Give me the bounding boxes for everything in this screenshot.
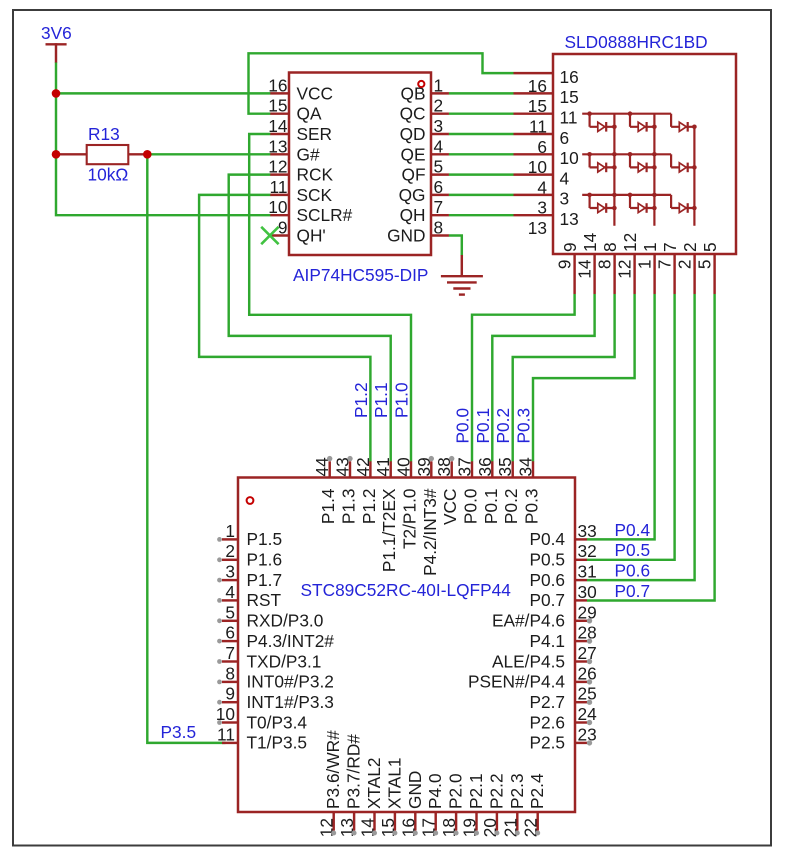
svg-text:1: 1	[434, 75, 444, 95]
svg-text:8: 8	[595, 260, 615, 270]
svg-text:VCC: VCC	[297, 83, 334, 103]
svg-text:5: 5	[695, 260, 715, 270]
svg-text:2: 2	[675, 260, 695, 270]
svg-text:2: 2	[225, 541, 235, 561]
svg-text:P4.1: P4.1	[529, 631, 565, 651]
svg-text:P2.7: P2.7	[529, 692, 565, 712]
svg-text:29: 29	[578, 602, 597, 622]
svg-text:P0.4: P0.4	[529, 529, 565, 549]
svg-text:8: 8	[600, 242, 620, 252]
svg-text:P0.2: P0.2	[493, 408, 513, 444]
svg-text:9: 9	[278, 218, 288, 238]
svg-text:P0.3: P0.3	[522, 489, 542, 525]
svg-text:14: 14	[268, 116, 288, 136]
svg-text:8: 8	[225, 663, 235, 683]
svg-text:P2.2: P2.2	[486, 773, 506, 809]
svg-text:8: 8	[434, 218, 444, 238]
svg-text:QH': QH'	[297, 226, 326, 246]
svg-text:4: 4	[560, 168, 570, 188]
svg-text:P2.6: P2.6	[529, 712, 565, 732]
svg-text:P0.4: P0.4	[615, 520, 651, 540]
svg-text:14: 14	[580, 232, 600, 252]
svg-text:QC: QC	[400, 104, 426, 124]
svg-text:P0.1: P0.1	[473, 408, 493, 444]
svg-text:STC89C52RC-40I-LQFP44: STC89C52RC-40I-LQFP44	[301, 580, 512, 600]
svg-text:P1.1/T2EX: P1.1/T2EX	[379, 488, 399, 572]
svg-text:12: 12	[620, 233, 640, 252]
svg-text:P0.0: P0.0	[461, 489, 481, 525]
svg-text:TXD/P3.1: TXD/P3.1	[247, 651, 322, 671]
svg-text:P1.7: P1.7	[247, 570, 283, 590]
svg-text:5: 5	[700, 242, 720, 252]
svg-text:XTAL2: XTAL2	[364, 757, 384, 809]
svg-text:P1.2: P1.2	[351, 382, 371, 418]
svg-text:3: 3	[434, 116, 444, 136]
svg-text:P4.3/INT2#: P4.3/INT2#	[247, 631, 335, 651]
svg-text:P0.6: P0.6	[615, 561, 651, 581]
svg-text:3V6: 3V6	[41, 23, 72, 43]
svg-text:P0.7: P0.7	[529, 590, 565, 610]
svg-text:13: 13	[528, 218, 547, 238]
svg-text:P4.0: P4.0	[425, 773, 445, 809]
svg-text:7: 7	[660, 242, 680, 252]
svg-text:33: 33	[578, 521, 597, 541]
svg-text:P3.6/WR#: P3.6/WR#	[323, 730, 343, 809]
svg-text:R13: R13	[88, 124, 120, 144]
svg-text:10: 10	[560, 148, 579, 168]
svg-text:31: 31	[578, 562, 597, 582]
svg-text:P2.3: P2.3	[507, 773, 527, 809]
svg-text:P3.7/RD#: P3.7/RD#	[344, 734, 364, 809]
svg-text:1: 1	[225, 521, 235, 541]
svg-text:GND: GND	[405, 771, 425, 809]
svg-text:15: 15	[560, 87, 579, 107]
svg-text:P4.2/INT3#: P4.2/INT3#	[420, 488, 440, 576]
svg-text:35: 35	[495, 457, 515, 476]
svg-text:10: 10	[268, 197, 287, 217]
svg-text:40: 40	[394, 457, 414, 476]
svg-text:XTAL1: XTAL1	[384, 757, 404, 809]
svg-text:6: 6	[434, 177, 444, 197]
svg-text:ALE/P4.5: ALE/P4.5	[492, 651, 565, 671]
svg-text:11: 11	[270, 177, 288, 197]
svg-text:RCK: RCK	[297, 165, 334, 185]
svg-text:QG: QG	[399, 185, 426, 205]
svg-text:VCC: VCC	[440, 489, 460, 526]
svg-text:2: 2	[434, 96, 444, 116]
svg-text:EA#/P4.6: EA#/P4.6	[492, 611, 565, 631]
svg-text:QF: QF	[402, 165, 426, 185]
svg-text:QH: QH	[400, 205, 426, 225]
svg-text:SER: SER	[297, 124, 333, 144]
svg-text:SCLR#: SCLR#	[297, 205, 353, 225]
svg-text:P1.6: P1.6	[247, 550, 283, 570]
svg-text:QD: QD	[400, 124, 426, 144]
svg-text:27: 27	[578, 643, 597, 663]
svg-text:2: 2	[680, 242, 700, 252]
svg-text:3: 3	[560, 189, 570, 209]
svg-text:SLD0888HRC1BD: SLD0888HRC1BD	[565, 32, 708, 52]
svg-text:P0.5: P0.5	[529, 550, 565, 570]
svg-text:QA: QA	[297, 104, 322, 124]
svg-text:36: 36	[475, 457, 495, 476]
svg-text:7: 7	[225, 643, 235, 663]
svg-text:P0.0: P0.0	[453, 408, 473, 444]
svg-text:P0.1: P0.1	[481, 489, 501, 525]
svg-text:T2/P1.0: T2/P1.0	[400, 489, 420, 550]
svg-text:42: 42	[353, 457, 373, 476]
svg-text:P2.5: P2.5	[529, 733, 565, 753]
svg-text:P1.3: P1.3	[339, 489, 359, 525]
svg-text:T0/P3.4: T0/P3.4	[247, 712, 308, 732]
svg-text:RST: RST	[247, 590, 282, 610]
svg-text:9: 9	[555, 260, 575, 270]
svg-text:P2.4: P2.4	[527, 773, 547, 809]
svg-text:7: 7	[434, 197, 444, 217]
svg-text:PSEN#/P4.4: PSEN#/P4.4	[468, 672, 565, 692]
svg-text:13: 13	[268, 136, 287, 156]
svg-text:GND: GND	[387, 226, 425, 246]
svg-text:3: 3	[225, 562, 235, 582]
svg-text:12: 12	[615, 260, 635, 279]
svg-text:T1/P3.5: T1/P3.5	[247, 733, 308, 753]
svg-text:9: 9	[225, 684, 235, 704]
svg-text:14: 14	[575, 259, 595, 279]
svg-text:INT1#/P3.3: INT1#/P3.3	[247, 692, 334, 712]
svg-text:P2.1: P2.1	[466, 773, 486, 809]
svg-text:P1.1: P1.1	[371, 382, 391, 418]
svg-text:RXD/P3.0: RXD/P3.0	[247, 611, 324, 631]
svg-text:30: 30	[578, 582, 597, 602]
svg-text:1: 1	[635, 260, 655, 270]
svg-text:P0.5: P0.5	[615, 540, 651, 560]
svg-text:26: 26	[578, 663, 597, 683]
svg-text:32: 32	[578, 541, 597, 561]
svg-text:11: 11	[217, 724, 235, 744]
svg-text:P0.2: P0.2	[501, 489, 521, 525]
svg-text:G#: G#	[297, 144, 320, 164]
svg-text:P1.4: P1.4	[318, 488, 338, 524]
svg-text:41: 41	[373, 457, 393, 476]
svg-text:1: 1	[640, 242, 660, 252]
svg-text:4: 4	[434, 136, 444, 156]
svg-text:P1.0: P1.0	[392, 382, 412, 418]
svg-text:16: 16	[560, 67, 579, 87]
svg-text:10kΩ: 10kΩ	[88, 164, 129, 184]
svg-text:P1.2: P1.2	[359, 489, 379, 525]
svg-text:P2.0: P2.0	[446, 773, 466, 809]
svg-text:23: 23	[578, 724, 597, 744]
svg-text:AIP74HC595-DIP: AIP74HC595-DIP	[293, 265, 428, 285]
svg-text:QE: QE	[401, 144, 426, 164]
svg-text:4: 4	[225, 582, 235, 602]
svg-text:15: 15	[268, 96, 287, 116]
svg-text:P3.5: P3.5	[161, 722, 197, 742]
svg-text:9: 9	[560, 242, 580, 252]
svg-text:16: 16	[268, 75, 287, 95]
svg-text:P0.6: P0.6	[529, 570, 565, 590]
svg-text:28: 28	[578, 623, 597, 643]
svg-text:34: 34	[516, 457, 536, 477]
svg-text:25: 25	[578, 684, 597, 704]
svg-text:INT0#/P3.2: INT0#/P3.2	[247, 672, 334, 692]
svg-text:SCK: SCK	[297, 185, 333, 205]
svg-text:P0.3: P0.3	[514, 408, 534, 444]
svg-text:6: 6	[560, 128, 570, 148]
svg-text:13: 13	[560, 209, 579, 229]
svg-text:11: 11	[560, 108, 578, 128]
svg-text:7: 7	[655, 260, 675, 270]
svg-text:6: 6	[225, 623, 235, 643]
svg-text:12: 12	[268, 157, 287, 177]
svg-text:37: 37	[455, 457, 475, 476]
svg-text:5: 5	[225, 602, 235, 622]
svg-text:P0.7: P0.7	[615, 581, 651, 601]
svg-text:P1.5: P1.5	[247, 529, 283, 549]
svg-text:5: 5	[434, 157, 444, 177]
